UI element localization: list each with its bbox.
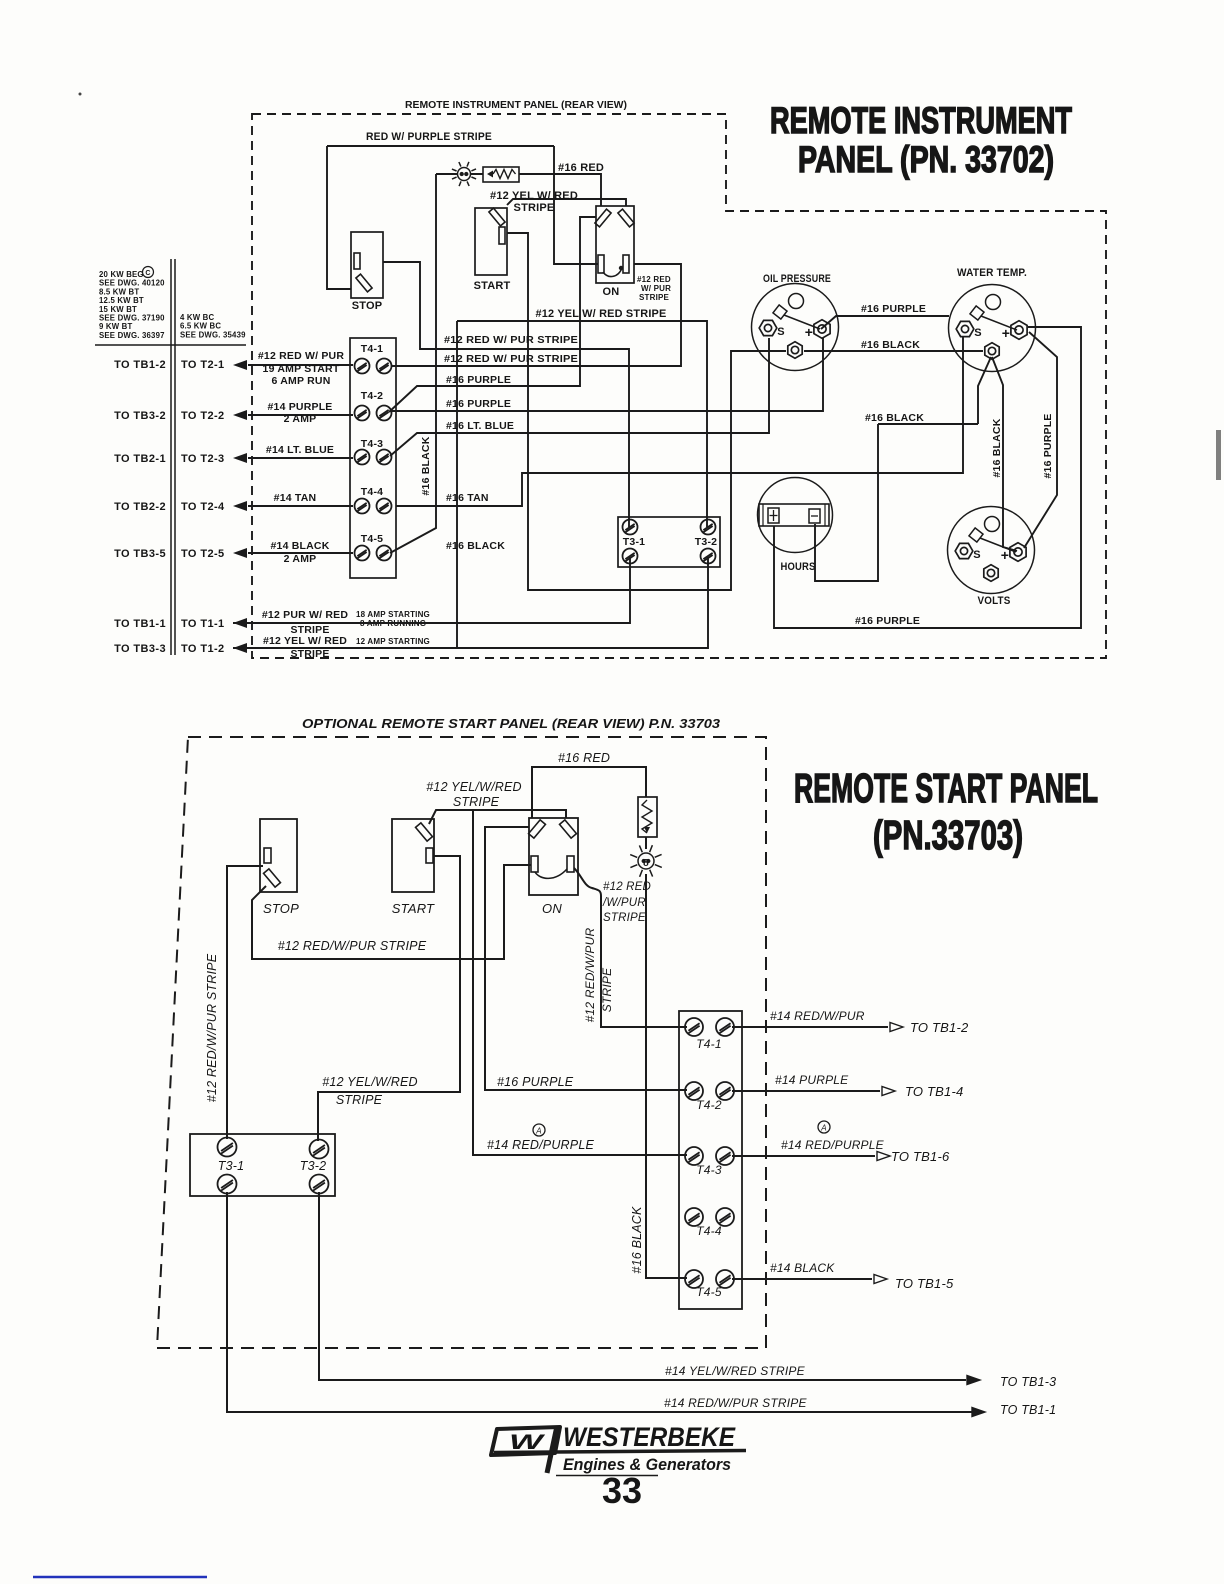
svg-text:#12 RED W/ PUR STRIPE: #12 RED W/ PUR STRIPE	[444, 353, 578, 365]
svg-text:+: +	[805, 324, 813, 340]
svg-text:12.5 KW BT: 12.5 KW BT	[99, 296, 144, 305]
svg-text:A: A	[535, 1127, 542, 1136]
svg-text:#12 RED: #12 RED	[637, 275, 671, 284]
svg-text:TO TB1-1: TO TB1-1	[114, 618, 166, 630]
svg-text:SEE DWG. 35439: SEE DWG. 35439	[180, 330, 246, 339]
svg-text:REMOTE INSTRUMENT: REMOTE INSTRUMENT	[770, 100, 1072, 141]
svg-text:RED W/ PURPLE STRIPE: RED W/ PURPLE STRIPE	[366, 131, 492, 143]
svg-text:20 KW BEG: 20 KW BEG	[99, 270, 144, 279]
svg-text:A: A	[820, 1124, 827, 1133]
svg-text:#14 RED/PURPLE: #14 RED/PURPLE	[487, 1138, 594, 1152]
svg-text:STRIPE: STRIPE	[639, 293, 670, 302]
svg-text:2 AMP: 2 AMP	[284, 413, 317, 425]
svg-text:TO TB1-1: TO TB1-1	[1000, 1403, 1056, 1417]
svg-text:TO T2-3: TO T2-3	[181, 453, 225, 465]
svg-text:T4-5: T4-5	[361, 533, 383, 545]
svg-text:#12 RED/W/PUR STRIPE: #12 RED/W/PUR STRIPE	[205, 953, 219, 1102]
svg-text:TO TB2-1: TO TB2-1	[114, 453, 166, 465]
svg-text:#16 PURPLE: #16 PURPLE	[855, 615, 920, 627]
svg-text:12 AMP STARTING: 12 AMP STARTING	[356, 637, 430, 646]
svg-text:TO T2-2: TO T2-2	[181, 410, 225, 422]
svg-text:TO TB1-2: TO TB1-2	[910, 1020, 969, 1035]
svg-text:VOLTS: VOLTS	[978, 595, 1011, 607]
svg-text:T4-2: T4-2	[696, 1098, 722, 1112]
svg-text:TO T2-4: TO T2-4	[181, 501, 225, 513]
svg-text:S: S	[973, 549, 981, 561]
svg-text:#16 PURPLE: #16 PURPLE	[446, 398, 511, 410]
svg-text:TO TB3-2: TO TB3-2	[114, 410, 166, 422]
svg-text:#12 RED/W/PUR: #12 RED/W/PUR	[583, 928, 597, 1023]
svg-text:#16 BLACK: #16 BLACK	[991, 418, 1003, 477]
svg-text:OPTIONAL REMOTE START PANEL (R: OPTIONAL REMOTE START PANEL (REAR VIEW) …	[302, 716, 721, 731]
svg-text:WATER TEMP.: WATER TEMP.	[957, 267, 1027, 279]
svg-text:#16 PURPLE: #16 PURPLE	[861, 303, 926, 315]
svg-text:ON: ON	[542, 901, 562, 916]
svg-text:9 KW BT: 9 KW BT	[99, 322, 132, 331]
svg-text:#16 BLACK: #16 BLACK	[630, 1206, 644, 1274]
svg-text:+: +	[1001, 547, 1009, 563]
svg-text:T3-1: T3-1	[623, 536, 645, 548]
svg-text:TO TB1-2: TO TB1-2	[114, 359, 166, 371]
svg-text:#16 LT. BLUE: #16 LT. BLUE	[446, 420, 514, 432]
svg-text:18 AMP STARTING: 18 AMP STARTING	[356, 610, 430, 619]
svg-text:#14 RED/W/PUR STRIPE: #14 RED/W/PUR STRIPE	[664, 1396, 807, 1410]
svg-text:#14 LT. BLUE: #14 LT. BLUE	[266, 444, 334, 456]
svg-text:#16 PURPLE: #16 PURPLE	[446, 374, 511, 386]
svg-text:(PN.33703): (PN.33703)	[873, 812, 1023, 858]
svg-text:TO TB2-2: TO TB2-2	[114, 501, 166, 513]
svg-text:SEE DWG. 37190: SEE DWG. 37190	[99, 314, 165, 323]
svg-text:STRIPE: STRIPE	[514, 202, 555, 214]
svg-text:S: S	[974, 327, 982, 339]
svg-text:C: C	[145, 270, 150, 277]
svg-text:#16 TAN: #16 TAN	[446, 492, 489, 504]
svg-text:#12 RED W/ PUR: #12 RED W/ PUR	[258, 350, 344, 362]
svg-text:STOP: STOP	[352, 300, 383, 312]
svg-text:#16 BLACK: #16 BLACK	[446, 540, 505, 552]
svg-text:TO T1-2: TO T1-2	[181, 643, 225, 655]
svg-text:33: 33	[602, 1470, 642, 1511]
svg-text:REMOTE START PANEL: REMOTE START PANEL	[794, 765, 1098, 811]
svg-text:TO TB3-3: TO TB3-3	[114, 643, 166, 655]
svg-text:/W/PUR: /W/PUR	[602, 897, 646, 909]
svg-text:SEE DWG. 36397: SEE DWG. 36397	[99, 331, 165, 340]
svg-text:#14 PURPLE: #14 PURPLE	[267, 401, 332, 413]
svg-text:T4-1: T4-1	[696, 1037, 721, 1051]
svg-text:START: START	[392, 901, 435, 916]
svg-text:8.5 KW BT: 8.5 KW BT	[99, 287, 139, 296]
svg-text:T4-3: T4-3	[696, 1163, 722, 1177]
svg-text:T4-2: T4-2	[361, 390, 383, 402]
svg-text:T4-5: T4-5	[696, 1285, 722, 1299]
svg-text:START: START	[474, 280, 511, 292]
svg-text:#14 PURPLE: #14 PURPLE	[775, 1073, 849, 1087]
svg-text:#16 BLACK: #16 BLACK	[861, 339, 920, 351]
svg-text:T4-1: T4-1	[361, 343, 383, 355]
svg-text:6 AMP RUN: 6 AMP RUN	[272, 375, 331, 387]
svg-text:T3-2: T3-2	[300, 1159, 327, 1173]
svg-text:T3-1: T3-1	[218, 1159, 245, 1173]
svg-text:4 KW BC: 4 KW BC	[180, 313, 214, 322]
svg-text:TO T1-1: TO T1-1	[181, 618, 225, 630]
svg-text:19 AMP START: 19 AMP START	[263, 363, 340, 375]
svg-text:8: 8	[643, 858, 649, 869]
svg-text:TO T2-1: TO T2-1	[181, 359, 225, 371]
svg-text:#14 BLACK: #14 BLACK	[770, 1261, 835, 1275]
svg-text:STRIPE: STRIPE	[600, 967, 614, 1012]
svg-text:#14 RED/PURPLE: #14 RED/PURPLE	[781, 1138, 885, 1152]
svg-text:TO T2-5: TO T2-5	[181, 548, 225, 560]
svg-text:#16 PURPLE: #16 PURPLE	[497, 1075, 574, 1089]
svg-text:HOURS: HOURS	[781, 561, 816, 573]
svg-text:#16 RED: #16 RED	[558, 162, 604, 174]
svg-text:WESTERBEKE: WESTERBEKE	[563, 1422, 736, 1452]
svg-text:#12 YEL W/ RED: #12 YEL W/ RED	[263, 635, 347, 647]
svg-text:2 AMP: 2 AMP	[284, 553, 317, 565]
svg-text:#16 PURPLE: #16 PURPLE	[1042, 413, 1054, 478]
svg-text:REMOTE INSTRUMENT PANEL (REAR: REMOTE INSTRUMENT PANEL (REAR VIEW)	[405, 99, 627, 111]
svg-text:ON: ON	[603, 286, 620, 298]
svg-text:TO TB3-5: TO TB3-5	[114, 548, 166, 560]
svg-text:#12 YEL W/ RED: #12 YEL W/ RED	[490, 190, 578, 202]
svg-text:STRIPE: STRIPE	[603, 912, 646, 924]
svg-text:TO TB1-3: TO TB1-3	[1000, 1375, 1056, 1389]
svg-text:S: S	[777, 326, 785, 338]
svg-text:STOP: STOP	[263, 901, 299, 916]
svg-text:#14 RED/W/PUR: #14 RED/W/PUR	[770, 1009, 865, 1023]
svg-text:W/ PUR: W/ PUR	[641, 284, 671, 293]
svg-text:T4-4: T4-4	[361, 486, 383, 498]
svg-text:PANEL (PN. 33702): PANEL (PN. 33702)	[798, 139, 1054, 180]
svg-text:T4-3: T4-3	[361, 438, 383, 450]
svg-text:T3-2: T3-2	[695, 536, 717, 548]
svg-text:TO TB1-5: TO TB1-5	[895, 1276, 954, 1291]
svg-text:#16 BLACK: #16 BLACK	[865, 412, 924, 424]
svg-text:#14 TAN: #14 TAN	[274, 492, 317, 504]
svg-text:#16 BLACK: #16 BLACK	[420, 436, 432, 495]
svg-text:TO TB1-6: TO TB1-6	[891, 1149, 950, 1164]
svg-text:15 KW BT: 15 KW BT	[99, 305, 137, 314]
svg-text:STRIPE: STRIPE	[453, 795, 500, 809]
svg-text:T4-4: T4-4	[696, 1224, 722, 1238]
svg-text:STRIPE: STRIPE	[336, 1093, 383, 1107]
svg-text:#16 RED: #16 RED	[558, 751, 610, 765]
svg-text:#12 RED: #12 RED	[603, 881, 651, 893]
svg-text:#12 YEL/W/RED: #12 YEL/W/RED	[322, 1075, 417, 1089]
svg-text:SEE DWG. 40120: SEE DWG. 40120	[99, 279, 165, 288]
svg-text:#12 YEL/W/RED: #12 YEL/W/RED	[426, 780, 521, 794]
svg-text:#14 BLACK: #14 BLACK	[271, 540, 330, 552]
svg-text:6.5 KW BC: 6.5 KW BC	[180, 322, 221, 331]
svg-text:#12 RED/W/PUR STRIPE: #12 RED/W/PUR STRIPE	[278, 939, 427, 953]
svg-text:+: +	[1002, 325, 1010, 341]
svg-text:STRIPE: STRIPE	[290, 648, 329, 660]
svg-text:TO TB1-4: TO TB1-4	[905, 1084, 963, 1099]
svg-text:#12 RED W/ PUR STRIPE: #12 RED W/ PUR STRIPE	[444, 334, 578, 346]
svg-text:#12 YEL W/ RED STRIPE: #12 YEL W/ RED STRIPE	[536, 308, 667, 320]
svg-text:OIL PRESSURE: OIL PRESSURE	[763, 273, 831, 285]
svg-text:Engines & Generators: Engines & Generators	[563, 1456, 731, 1474]
svg-text:#14 YEL/W/RED STRIPE: #14 YEL/W/RED STRIPE	[665, 1364, 806, 1378]
svg-text:#12 PUR W/ RED: #12 PUR W/ RED	[262, 609, 348, 621]
